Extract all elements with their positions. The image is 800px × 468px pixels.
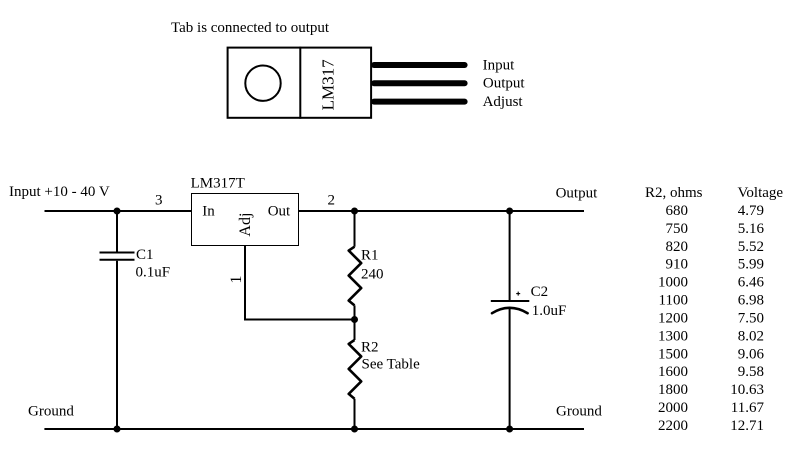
pin label Adj (rotated) [237,213,254,237]
wire: ground rail [44,428,584,430]
svg-text:750: 750 [666,221,689,237]
svg-text:12.71: 12.71 [730,418,764,434]
svg-text:LM317: LM317 [318,59,337,111]
svg-text:910: 910 [666,257,689,273]
pin number 1 (rotated) [228,276,245,284]
pin label In [202,204,215,220]
package lead: output pin [374,80,465,86]
node: C2/ground junction [506,426,513,433]
svg-text:680: 680 [666,203,689,219]
value See Table [362,357,421,373]
resistor R2 bottom lead [354,399,356,429]
svg-text:1600: 1600 [658,364,688,380]
svg-text:C1: C1 [136,247,154,263]
pin label Input [483,57,515,73]
node: R1/R2/Adj junction [351,316,358,323]
net label: Output [556,186,599,202]
svg-text:2000: 2000 [658,400,688,416]
svg-text:Ground: Ground [556,404,602,420]
label C1 [136,247,154,263]
svg-text:2200: 2200 [658,418,688,434]
capacitor C2 bottom lead [509,308,511,429]
resistor R1 top lead [354,211,356,247]
label R1 [361,248,379,264]
capacitor C2 positive plate [491,300,530,302]
svg-text:4.79: 4.79 [738,203,764,219]
wire: input rail [45,210,192,212]
node: input/C1 junction [114,208,121,215]
pin label Output [483,76,526,92]
resistor R2 zigzag [349,340,362,399]
svg-text:240: 240 [361,267,384,283]
svg-text:Ground: Ground [28,404,74,420]
package tab/body divider [299,47,301,119]
label C2 [531,284,549,300]
svg-text:Output: Output [556,186,599,202]
resistor R1 zigzag [349,247,362,306]
capacitor C1 bottom plate [100,259,135,261]
regulator U1 LM317T body [192,194,299,246]
pin label Adjust [483,94,524,110]
svg-text:1800: 1800 [658,382,688,398]
capacitor C1 top lead [116,211,118,252]
svg-text:C2: C2 [531,284,549,300]
svg-text:0.1uF: 0.1uF [136,265,171,281]
package part label LM317 [318,59,337,111]
wire: output rail [299,210,584,212]
node: C1/ground junction [114,426,121,433]
node: R2/ground junction [351,426,358,433]
TO-220 package outline [228,48,372,118]
svg-text:11.67: 11.67 [731,400,765,416]
note: Tab is connected to output [171,20,330,36]
net label: Ground (left) [28,404,74,420]
value 0.1uF [136,265,171,281]
svg-text:Adjust: Adjust [483,94,524,110]
svg-text:Out: Out [268,204,291,220]
svg-text:8.02: 8.02 [738,328,764,344]
capacitor C2 polarity plus [516,292,520,296]
svg-text:6.98: 6.98 [738,293,764,309]
label R2 [361,340,379,356]
pin number 3 [155,193,163,209]
svg-text:10.63: 10.63 [730,382,764,398]
capacitor C2 top lead [509,211,511,301]
resistor R1 bottom lead [354,305,356,319]
svg-text:See Table: See Table [362,357,421,373]
node: output/C2 junction [506,208,513,215]
package lead: input pin [374,62,465,68]
svg-text:In: In [202,204,215,220]
label LM317T [191,175,245,191]
net label: Input +10 - 40 V [9,184,110,200]
svg-text:R1: R1 [361,248,379,264]
resistor R2 top lead [354,320,356,341]
svg-text:Voltage: Voltage [738,185,784,201]
capacitor C1 bottom lead [116,261,118,429]
svg-text:1000: 1000 [658,275,688,291]
value 1.0uF [532,303,567,319]
svg-text:9.06: 9.06 [738,346,765,362]
svg-text:820: 820 [666,239,689,255]
capacitor C1 top plate [100,252,135,254]
svg-text:1200: 1200 [658,311,688,327]
table rows [658,203,765,434]
pin number 2 [328,193,336,209]
svg-text:Input: Input [483,57,515,73]
svg-text:1.0uF: 1.0uF [532,303,567,319]
svg-text:Tab is connected to output: Tab is connected to output [171,20,330,36]
value 240 [361,267,384,283]
svg-text:5.52: 5.52 [738,239,764,255]
net label: Ground (right) [556,404,602,420]
wire: Adj pin lead (pin 1) [245,246,355,320]
svg-text:9.58: 9.58 [738,364,764,380]
svg-text:5.16: 5.16 [738,221,765,237]
svg-text:2: 2 [328,193,336,209]
table header: R2, ohms [645,185,703,201]
svg-text:6.46: 6.46 [738,275,765,291]
pin label Out [268,204,291,220]
svg-text:R2: R2 [361,340,379,356]
svg-text:1: 1 [228,276,245,284]
svg-text:7.50: 7.50 [738,311,764,327]
svg-text:Output: Output [483,76,526,92]
svg-text:1500: 1500 [658,346,688,362]
svg-text:1300: 1300 [658,328,688,344]
svg-text:5.99: 5.99 [738,257,764,273]
svg-text:3: 3 [155,193,163,209]
capacitor C2 negative plate (curved) [492,308,528,313]
svg-text:R2, ohms: R2, ohms [645,185,703,201]
svg-text:LM317T: LM317T [191,175,245,191]
svg-text:Adj: Adj [237,213,254,237]
package lead: adjust pin [374,99,465,105]
svg-text:Input +10 - 40 V: Input +10 - 40 V [9,184,110,200]
table header: Voltage [738,185,784,201]
node: output/R1 junction [351,208,358,215]
svg-text:1100: 1100 [659,293,688,309]
package mounting hole [245,66,280,101]
